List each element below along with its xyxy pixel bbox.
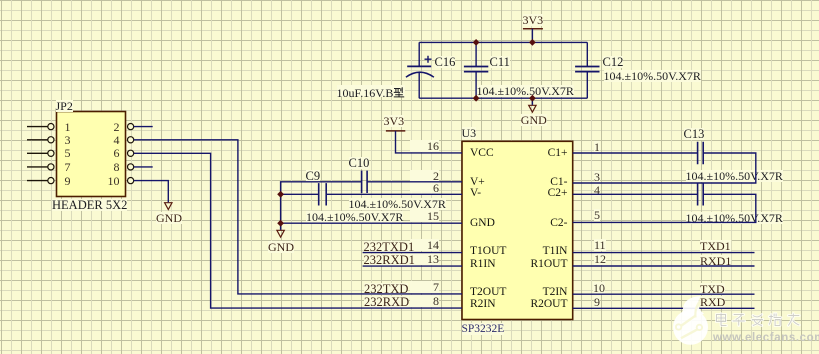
power label GND middle — [268, 241, 294, 253]
U3 pin name T1OUT — [470, 246, 506, 257]
JP2 pin number 2 — [98, 121, 120, 133]
U3 pin number 15 — [410, 210, 439, 222]
ground symbol under header pin10 — [165, 203, 172, 210]
JP2 pin number 4 — [98, 134, 120, 146]
label C13 value — [686, 170, 783, 182]
label JP2 designator — [56, 100, 73, 112]
JP2 pin number 10 — [98, 175, 120, 187]
wire header pin10 to ground — [134, 181, 169, 203]
label U3 designator — [462, 127, 477, 139]
U3 pin name R1IN — [470, 259, 496, 270]
junction on bottom rail at GND — [529, 95, 536, 102]
ground symbol V+/V- node — [277, 230, 284, 237]
U3 pin name T2OUT — [470, 287, 506, 298]
capacitor C12 plates — [575, 67, 599, 72]
wire header pin6 to U3 pin8 (232RXD) — [134, 153, 462, 308]
JP2 pin number 7 — [65, 161, 71, 173]
label C10 value — [349, 198, 446, 210]
label C9 value — [306, 211, 403, 223]
power label GND top — [521, 114, 547, 126]
wire bottom rail to GND — [419, 97, 587, 99]
U3 pin name R1OUT — [500, 259, 568, 270]
ground symbol under bottom rail — [529, 105, 536, 112]
label C9 designator — [306, 170, 321, 182]
JP2 left pin stubs 1,3,5,7,9 — [27, 127, 48, 181]
label C16 value 10uF.16V.B — [337, 85, 406, 97]
wire C11 leads — [475, 42, 477, 98]
wire RXD1 pin12 — [573, 265, 755, 267]
JP2 left pin circles — [48, 124, 54, 184]
wire TXD1 pin11 — [573, 252, 755, 254]
wire V- net through C9 — [281, 193, 462, 195]
wire 232TXD1 pin14 — [363, 252, 462, 254]
JP2 pin number 9 — [65, 175, 71, 187]
JP2 pin number 3 — [65, 134, 71, 146]
U3 pin name C1- — [500, 177, 568, 188]
power label 3V3 top — [523, 14, 544, 26]
label C11 value — [477, 85, 574, 97]
U3 pin name V- — [470, 188, 481, 199]
U3 pin number 13 — [410, 253, 439, 265]
U3 pin name R2OUT — [500, 299, 568, 310]
wire 3V3 to U3 VCC pin16 — [396, 131, 463, 153]
label C16 designator — [435, 56, 456, 68]
U3 pin name C2- — [500, 218, 568, 229]
wire C2+ C2- loop through C14 — [573, 194, 756, 222]
wire U3 GND pin15 — [281, 222, 462, 224]
net label 232TXD — [364, 283, 408, 295]
JP2 pin number 5 — [65, 147, 71, 159]
U3 pin name GND — [470, 218, 495, 229]
wire 3V3 top rail — [419, 41, 587, 43]
watermark url text — [713, 333, 819, 344]
wire header pin4 to U3 pin7 (232TXD) — [134, 140, 462, 294]
power 3V3 bar top — [523, 28, 543, 30]
JP2 right pin circles — [128, 124, 134, 184]
junction on top rail at C11 — [473, 39, 480, 46]
wire 3V3 power stub — [531, 29, 533, 43]
net label RXD1 — [700, 255, 731, 267]
U3 pin number 10 — [593, 282, 605, 294]
IC U3 body — [462, 141, 573, 319]
label C10 designator — [349, 157, 370, 169]
U3 pin number 5 — [594, 209, 600, 221]
capacitor C10 plates — [362, 171, 368, 193]
label C13 designator — [684, 128, 705, 140]
capacitor C11 plates — [464, 67, 488, 72]
net label 232TXD1 — [364, 241, 415, 253]
net label 232RXD — [364, 296, 409, 308]
capacitor C16 electrolytic plates — [407, 65, 431, 67]
capacitor C9 plates — [319, 183, 327, 205]
connector JP2 body — [57, 112, 126, 197]
U3 pin name T1IN — [500, 246, 568, 257]
U3 pin name V+ — [470, 177, 485, 188]
C16 plus sign — [425, 56, 432, 63]
U3 pin number 11 — [594, 239, 606, 251]
wire 232RXD1 pin13 — [363, 265, 462, 267]
power 3V3 bar left — [386, 130, 405, 132]
U3 pin number 7 — [410, 281, 439, 293]
U3 pin number 12 — [594, 253, 606, 265]
U3 pin number 9 — [594, 296, 600, 308]
label C14 value — [686, 212, 783, 224]
label SP3232E part type — [462, 323, 505, 335]
U3 pin number 2 — [410, 170, 439, 182]
U3 pin number 3 — [594, 171, 600, 183]
wire RXD pin9 — [573, 307, 755, 309]
power label GND header — [156, 212, 182, 224]
wire C12 leads — [586, 42, 588, 98]
wire header pin2 stub net — [134, 126, 153, 128]
U3 pin name C2+ — [500, 188, 568, 199]
wire GND stub below rail — [531, 98, 533, 105]
wire header pin8 stub net — [134, 166, 153, 168]
U3 pin number 1 — [594, 141, 600, 153]
U3 pin name T2IN — [500, 287, 568, 298]
JP2 pin number 1 — [65, 121, 71, 133]
power label 3V3 left — [384, 115, 405, 127]
junction V- node — [277, 191, 284, 198]
wire C16 leads — [418, 42, 420, 98]
JP2 pin number 6 — [98, 147, 120, 159]
wire TXD pin10 — [573, 293, 755, 295]
net label TXD — [700, 283, 725, 295]
capacitor C14 plates — [698, 183, 704, 205]
U3 pin name C1+ — [500, 148, 568, 159]
junction on bottom rail at C11 — [473, 95, 480, 102]
U3 pin number 8 — [410, 295, 439, 307]
U3 pin number 4 — [594, 184, 600, 196]
junction on top rail at 3V3 — [529, 39, 536, 46]
net label RXD — [700, 296, 725, 308]
U3 pin name R2IN — [470, 299, 496, 310]
wire C1+ C1- loop through C13 — [573, 153, 756, 183]
net label TXD1 — [700, 240, 731, 252]
label C12 value — [604, 70, 701, 82]
label C11 designator — [490, 56, 510, 68]
net label 232RXD1 — [364, 254, 415, 266]
U3 pin number 6 — [410, 182, 439, 194]
label C12 designator — [603, 56, 624, 68]
U3 pin number 16 — [410, 140, 439, 152]
U3 pin name VCC — [470, 148, 494, 159]
wire V+ net through C10 to GND rail — [281, 182, 462, 230]
JP2 pin number 8 — [98, 161, 120, 173]
junction GND node — [277, 220, 284, 227]
U3 pin number 14 — [410, 239, 439, 251]
label HEADER 5X2 — [52, 199, 127, 211]
capacitor C13 plates — [698, 142, 704, 164]
